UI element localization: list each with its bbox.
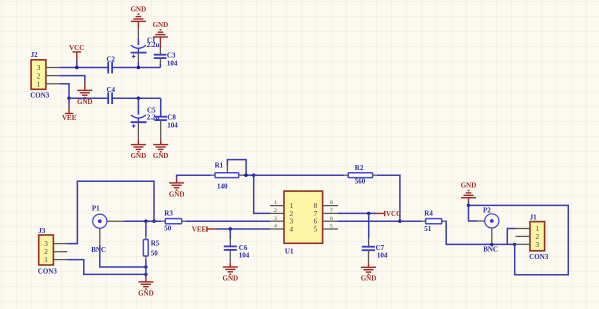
ground GND below R5 [138,278,154,297]
wire P1 shield to R5 bottom [100,245,146,267]
P2 left stub [478,220,485,222]
U1 pin 4 [270,224,284,230]
svg-text:3: 3 [536,241,540,249]
capacitor C3 104 [154,44,178,67]
power port VEE at U1 [192,225,216,233]
wire ground node down [145,267,147,278]
resistor R5 50 [143,221,159,267]
wire U1 pin7 to VCC [338,212,376,214]
capacitor C2 [107,56,116,74]
svg-text:R3: R3 [164,210,173,218]
svg-text:50: 50 [151,250,159,258]
svg-text:1: 1 [536,225,540,233]
svg-text:CON3: CON3 [38,267,58,275]
wire J2.2 to ground [60,76,85,82]
svg-text:6: 6 [330,216,333,222]
wire R1 tap loop [227,160,246,176]
ground GND below C5 [131,140,147,160]
junction loop at R1 right [244,174,247,177]
capacitor C5 2.2u [131,98,160,140]
svg-text:VEE: VEE [192,225,207,233]
wire R4 to P2 bottom [446,221,515,244]
svg-text:140: 140 [217,182,228,190]
wire J2.1 corner [60,84,69,98]
svg-text:R4: R4 [424,210,433,218]
junction P2 shield [490,243,493,246]
svg-text:BNC: BNC [91,246,106,254]
svg-text:1: 1 [274,200,277,206]
svg-text:C4: C4 [107,86,116,94]
svg-text:50: 50 [164,225,172,233]
ground GND below C8 [153,140,169,160]
wire feedback rail to R2 [254,174,344,176]
ground GND below C7 [361,263,377,283]
op-amp U1 [284,191,323,255]
J1 pin 3 stub [515,243,530,245]
U1 pin 8 [323,200,338,206]
wire C1 to rail [137,63,139,68]
wire C3 to rail corner [159,64,161,68]
svg-text:51: 51 [424,225,432,233]
svg-text:3: 3 [44,240,48,248]
power port VCC [69,44,84,67]
power port VEE [62,98,77,122]
wire C2 to C3 column [112,67,160,69]
svg-text:7: 7 [314,210,318,218]
svg-text:7: 7 [330,208,333,214]
svg-text:GND: GND [131,152,147,160]
svg-text:J1: J1 [530,214,538,222]
resistor R4 51 [422,210,446,234]
wire GND top rail loop [469,205,569,274]
wire GND to P2 left [469,205,478,221]
wire R1 right [243,174,254,176]
ground GND at R1 [169,179,185,198]
J1 pin 2 stub [516,235,531,237]
capacitor C8 104 [154,98,178,140]
svg-text:VEE: VEE [62,114,77,122]
J3 pin 3 stub [53,243,67,245]
wire J1 pin1 down [507,229,515,245]
svg-text:8: 8 [314,202,318,210]
U1 pin 5 [323,224,338,230]
svg-text:GND: GND [169,190,185,198]
wire C4 to C8 column [112,97,161,99]
svg-text:GND: GND [461,182,477,190]
svg-text:VCC: VCC [386,210,401,218]
wire R2 to U1 pin6 [377,175,400,221]
wire J3.1 to ground node [67,260,145,275]
svg-text:2: 2 [37,72,41,80]
svg-text:U1: U1 [285,247,294,255]
svg-text:1: 1 [290,202,294,210]
svg-text:2: 2 [536,233,540,241]
junction R5 top [144,220,147,223]
svg-text:GND: GND [138,289,154,297]
svg-text:GND: GND [153,21,169,29]
U1 pin 2 [270,208,284,214]
resistor R1 140 [211,161,243,190]
svg-text:R1: R1 [215,161,224,169]
wire R3 to U1 pin3 [186,220,270,222]
svg-text:GND: GND [223,274,239,282]
svg-text:104: 104 [167,121,178,129]
svg-text:2: 2 [274,208,277,214]
BNC connector P2 [483,206,499,253]
connector J2 (CON3) [30,51,50,99]
P1 signal stub [107,220,123,222]
wire J3.3 loop [67,181,154,243]
BNC connector P1 [91,205,107,255]
svg-text:8: 8 [330,200,333,206]
junction J1 pin3 node [513,243,516,246]
junction C5 on rail [137,97,140,100]
wire junction to R4 [400,220,422,222]
svg-text:R2: R2 [355,164,364,172]
svg-text:GND: GND [361,275,377,283]
svg-text:5: 5 [314,225,318,233]
svg-text:2: 2 [290,210,294,218]
svg-text:2: 2 [44,248,48,256]
junction VEE tap [67,97,70,100]
svg-text:J3: J3 [38,227,46,235]
svg-text:GND: GND [77,98,93,106]
svg-text:CON3: CON3 [529,253,549,261]
svg-text:3: 3 [274,216,277,222]
wire P1 to R3 [123,220,161,222]
junction C6 tap [229,227,232,230]
junction R5 bottom [144,265,147,268]
svg-text:BNC: BNC [483,246,498,254]
junction C1 on rail [137,66,140,69]
resistor R3 50 [161,210,185,233]
svg-text:1: 1 [44,256,48,264]
junction loop on signal rail [152,220,155,223]
svg-text:1: 1 [37,80,41,88]
junction J3.1 ground node [144,273,147,276]
P1 shield stub [99,228,101,244]
junction GND node [467,204,470,207]
capacitor C4 [107,86,116,104]
svg-text:VCC: VCC [69,44,84,52]
J1 pin 1 stub [516,228,531,230]
junction C7 tap [367,212,370,215]
U1 pin 1 [270,200,284,206]
junction at VCC tap [75,66,78,69]
svg-text:3: 3 [37,64,41,72]
wire J2.3 to C2 [60,67,108,69]
ground GND mid [77,82,93,106]
resistor R2 560 [344,164,377,186]
ground GND above C3 [153,21,169,44]
junction branch to U1 pin2 [252,174,255,177]
svg-text:104: 104 [377,252,388,260]
svg-text:104: 104 [167,59,178,67]
svg-text:CON3: CON3 [30,91,50,99]
J3 pin 2 stub [53,251,67,253]
wire branch down to U1 pin2 [254,175,270,213]
svg-text:GND: GND [153,152,169,160]
svg-text:GND: GND [131,5,147,13]
svg-text:R5: R5 [151,240,160,248]
P2 bottom stub [491,228,493,244]
capacitor C6 104 [224,229,250,263]
J2 pin 3 stub [46,67,60,69]
capacitor C1 2.2u [131,28,160,62]
wire to C4 [69,97,108,99]
svg-text:2.2u: 2.2u [147,41,160,49]
U1 pin 7 [323,208,338,214]
svg-text:560: 560 [355,178,366,186]
capacitor C7 104 [362,213,388,263]
svg-text:3: 3 [290,218,294,226]
wire VEE to U1 pin4 [215,228,270,230]
J3 pin 1 stub [53,259,67,261]
connector J3 (CON3) [38,227,58,275]
junction R2 on pin6 rail [398,220,401,223]
ground GND below C6 [223,263,239,283]
J2 pin 2 stub [46,75,60,77]
svg-text:5: 5 [330,224,333,230]
ground GND above P2 [461,182,477,202]
svg-text:4: 4 [290,225,294,233]
wire U1 pin6 to junction [338,220,400,222]
svg-text:P2: P2 [483,206,491,214]
U1 pin 6 [323,216,338,222]
svg-text:C2: C2 [107,56,116,64]
connector J1 (CON3) [529,214,549,262]
wire GND junction [468,202,470,206]
wire R1 left to ground [177,175,211,179]
J2 pin 1 stub [46,83,60,85]
svg-text:104: 104 [239,252,250,260]
svg-text:J2: J2 [31,51,38,59]
svg-text:6: 6 [314,218,318,226]
R1 tap stub [226,165,228,173]
svg-text:4: 4 [274,224,277,230]
svg-text:P1: P1 [92,205,100,213]
U1 pin 3 [270,216,284,222]
ground GND above C1 [131,5,147,28]
power port VCC at U1 [376,210,401,218]
